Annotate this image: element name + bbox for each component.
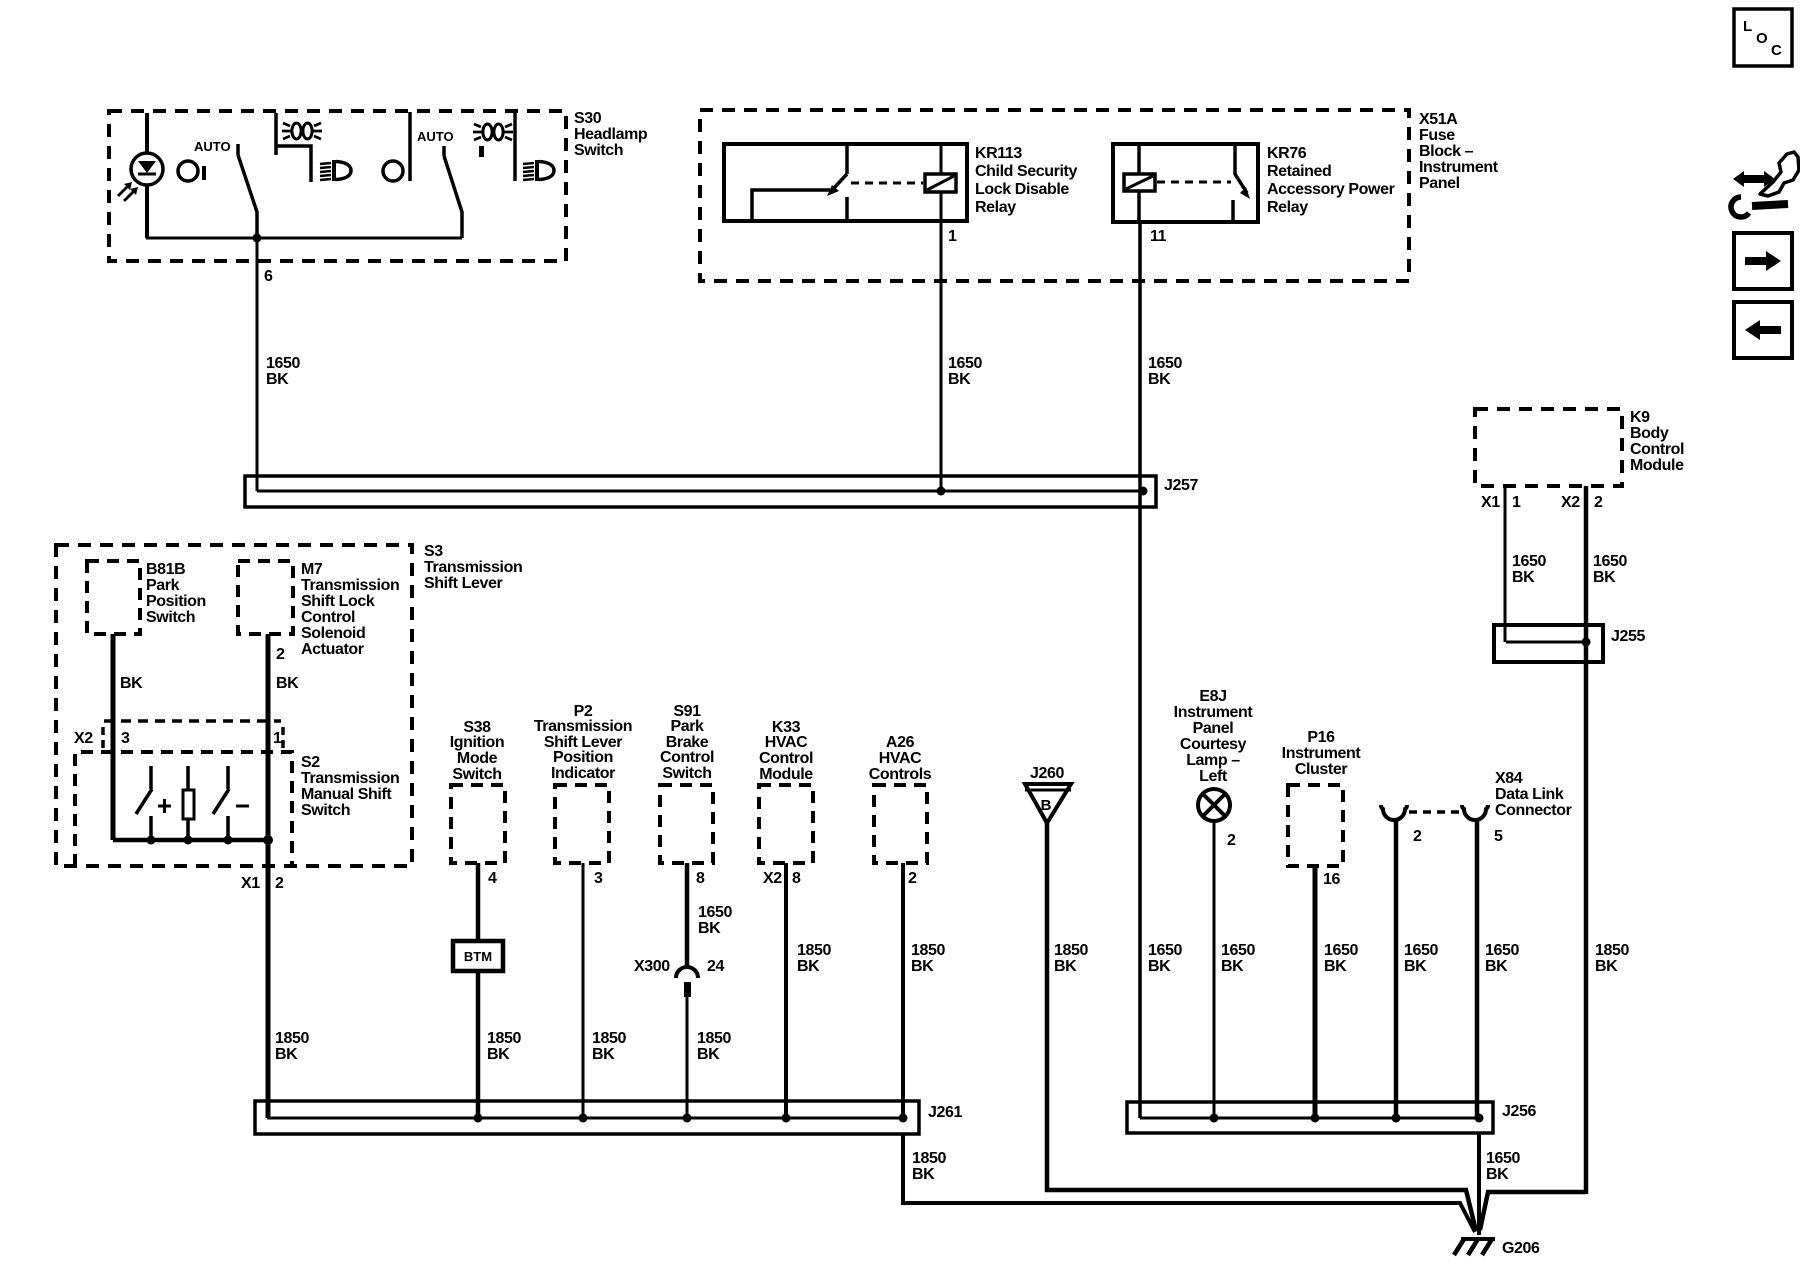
svg-text:Connector: Connector xyxy=(1495,802,1572,819)
svg-text:1850: 1850 xyxy=(911,942,945,959)
svg-text:Instrument: Instrument xyxy=(1174,704,1254,721)
contact bar 2 xyxy=(408,112,412,181)
svg-text:Position: Position xyxy=(553,749,613,766)
svg-text:BK: BK xyxy=(266,371,289,388)
P16 dashed box xyxy=(1288,785,1343,866)
S2 resistor xyxy=(183,766,194,840)
svg-text:BK: BK xyxy=(120,675,143,692)
svg-text:2: 2 xyxy=(908,870,917,887)
svg-text:HVAC: HVAC xyxy=(879,750,922,767)
svg-text:1650: 1650 xyxy=(698,904,732,921)
wire label 1850 BK xyxy=(592,1030,626,1063)
P2 pin 3 label xyxy=(594,870,603,887)
splice pack J261 xyxy=(255,1101,919,1134)
svg-text:B81B: B81B xyxy=(146,561,185,578)
svg-text:AUTO: AUTO xyxy=(417,129,454,144)
svg-text:Transmission: Transmission xyxy=(534,718,632,735)
ground G206 xyxy=(1454,1239,1495,1255)
KR113 coil-switch dashed link xyxy=(851,182,923,185)
S2 plus switch xyxy=(136,766,171,840)
svg-text:Instrument: Instrument xyxy=(1419,159,1499,176)
K9 label xyxy=(1630,409,1684,474)
svg-text:BK: BK xyxy=(1595,958,1618,975)
wire label 1650 BK xyxy=(1148,355,1182,388)
wire label 1650 BK xyxy=(698,904,732,937)
KR76 coil wires xyxy=(1137,146,1141,222)
pin 1 label xyxy=(948,228,957,245)
svg-text:J261: J261 xyxy=(928,1104,962,1121)
svg-text:Ignition: Ignition xyxy=(450,734,505,751)
M7 label xyxy=(301,561,399,658)
svg-text:BTM: BTM xyxy=(464,949,492,964)
wire labels 1650 BK xyxy=(1512,553,1546,586)
pin 6 label xyxy=(264,268,273,285)
wire P16 to J256 xyxy=(1313,866,1318,1118)
inline connector X300 xyxy=(634,958,724,997)
svg-text:J260: J260 xyxy=(1030,765,1064,782)
contact bar 3 xyxy=(513,112,517,181)
J255 label xyxy=(1611,628,1645,645)
svg-text:S2: S2 xyxy=(301,754,320,771)
svg-text:BK: BK xyxy=(592,1046,615,1063)
svg-text:2: 2 xyxy=(1413,828,1422,845)
svg-text:J256: J256 xyxy=(1502,1103,1536,1120)
svg-text:BK: BK xyxy=(1148,958,1171,975)
wire label 1650 BK xyxy=(1486,1150,1520,1183)
previous page arrow box xyxy=(1734,302,1792,358)
wire label 1850 BK xyxy=(911,942,945,975)
svg-text:1850: 1850 xyxy=(1595,942,1629,959)
X84 terminal ear pin 5 xyxy=(1462,805,1488,820)
wire label 1850 BK xyxy=(797,942,831,975)
svg-text:BK: BK xyxy=(911,958,934,975)
svg-text:BK: BK xyxy=(1593,569,1616,586)
svg-text:K9: K9 xyxy=(1630,409,1650,426)
svg-text:BK: BK xyxy=(1148,371,1171,388)
wire X84-2 to J256 xyxy=(1394,820,1399,1118)
S30 internal bus wire xyxy=(146,237,462,240)
A26 pin 2 label xyxy=(908,870,917,887)
X1 pin labels xyxy=(241,875,284,892)
svg-text:Panel: Panel xyxy=(1419,175,1460,192)
svg-text:16: 16 xyxy=(1323,871,1340,888)
data link connector X84 label xyxy=(1495,770,1572,819)
next page arrow box xyxy=(1734,233,1792,289)
wire labels 1650 BK xyxy=(1404,942,1438,975)
park brake control switch S91 label xyxy=(660,703,714,782)
svg-text:X51A: X51A xyxy=(1419,111,1458,128)
svg-text:Transmission: Transmission xyxy=(301,577,399,594)
X84 pin labels xyxy=(1413,828,1503,845)
S91 pin 8 label xyxy=(696,870,705,887)
svg-text:HVAC: HVAC xyxy=(765,734,808,751)
BK label right xyxy=(276,675,299,692)
svg-text:Actuator: Actuator xyxy=(301,641,364,658)
svg-text:S30: S30 xyxy=(574,110,602,127)
wire label 1850 BK xyxy=(275,1030,309,1063)
svg-text:Manual Shift: Manual Shift xyxy=(301,786,392,803)
wire M7 through S2 to J261 xyxy=(266,634,271,1118)
svg-text:Data Link: Data Link xyxy=(1495,786,1564,803)
splice pack J256 xyxy=(1127,1102,1493,1133)
X2 pin labels xyxy=(74,730,282,747)
wire K33 to J261 xyxy=(784,863,788,1118)
wire label 1650 BK xyxy=(1221,942,1255,975)
svg-text:1650: 1650 xyxy=(1148,942,1182,959)
svg-text:1650: 1650 xyxy=(1486,1150,1520,1167)
HVAC controls A26 label xyxy=(869,734,932,783)
P16 pin 16 label xyxy=(1323,871,1340,888)
svg-text:1850: 1850 xyxy=(797,942,831,959)
svg-text:11: 11 xyxy=(1150,228,1167,245)
svg-text:Relay: Relay xyxy=(975,199,1016,216)
wire label 1850 BK (J255 wire) xyxy=(1595,942,1629,975)
shift lever position indicator P2 label xyxy=(534,703,632,782)
svg-text:X1: X1 xyxy=(241,875,260,892)
instrument cluster P16 label xyxy=(1282,729,1362,778)
wire label 1650 BK xyxy=(266,355,300,388)
svg-text:Control: Control xyxy=(301,609,355,626)
svg-text:BK: BK xyxy=(276,675,299,692)
K9 pin labels xyxy=(1481,494,1603,511)
S2 minus switch xyxy=(213,766,249,840)
svg-text:1650: 1650 xyxy=(1221,942,1255,959)
wire J261 to ground xyxy=(903,1134,1475,1232)
S2 label xyxy=(301,754,399,819)
svg-text:Position: Position xyxy=(146,593,206,610)
svg-text:1: 1 xyxy=(273,730,282,747)
S38 dashed box xyxy=(451,785,505,863)
A26 dashed box xyxy=(874,785,927,863)
svg-text:KR76: KR76 xyxy=(1267,145,1307,162)
svg-text:1650: 1650 xyxy=(948,355,982,372)
fuse block X51A dashed box xyxy=(700,110,1409,281)
svg-text:5: 5 xyxy=(1494,828,1503,845)
svg-text:Controls: Controls xyxy=(869,766,932,783)
svg-text:Shift Lock: Shift Lock xyxy=(301,593,375,610)
ground distribution triangle J260 xyxy=(1025,784,1071,823)
K33 dashed box xyxy=(759,785,813,863)
svg-text:Control: Control xyxy=(759,750,813,767)
wire K9 X1-1 to J255 xyxy=(1504,486,1507,642)
ignition mode switch S38 label xyxy=(450,719,505,783)
svg-text:Control: Control xyxy=(1630,441,1684,458)
svg-text:Body: Body xyxy=(1630,425,1669,442)
svg-text:M7: M7 xyxy=(301,561,323,578)
svg-text:X300: X300 xyxy=(634,958,670,975)
svg-text:24: 24 xyxy=(707,958,724,975)
KR113 label xyxy=(975,145,1077,216)
switch position circle 1 xyxy=(178,161,206,181)
svg-text:1650: 1650 xyxy=(1485,942,1519,959)
AUTO label 1 xyxy=(194,139,231,154)
svg-text:B: B xyxy=(1041,797,1052,814)
svg-text:1850: 1850 xyxy=(1054,942,1088,959)
S91 dashed box xyxy=(660,785,713,863)
svg-text:AUTO: AUTO xyxy=(194,139,231,154)
photocell (ambient light sensor) xyxy=(118,113,163,238)
svg-text:KR113: KR113 xyxy=(975,145,1022,162)
HVAC control module K33 label xyxy=(759,719,813,783)
G206 label xyxy=(1502,1240,1540,1257)
svg-text:O: O xyxy=(1756,30,1768,47)
KR76 dashed link xyxy=(1157,181,1231,184)
svg-text:Child Security: Child Security xyxy=(975,163,1077,180)
wire KR113 pin1 to J257 xyxy=(940,221,943,491)
svg-text:2: 2 xyxy=(1594,494,1603,511)
wire J255 to ground xyxy=(1480,1192,1586,1230)
wire S30 pin6 to J257 xyxy=(256,238,259,491)
KR76 switch xyxy=(1233,146,1250,220)
S2 bus wire xyxy=(113,835,273,845)
splice pack J255 xyxy=(1494,625,1603,662)
M7 pin 2 label xyxy=(276,646,285,663)
X84 dashed link xyxy=(1409,810,1464,814)
svg-text:Indicator: Indicator xyxy=(551,765,615,782)
parking lamp icon 2 xyxy=(473,124,513,157)
wire X84-5 to J256 xyxy=(1475,820,1480,1118)
svg-text:BK: BK xyxy=(1485,958,1508,975)
svg-text:Relay: Relay xyxy=(1267,199,1308,216)
splice pack J257 xyxy=(245,476,1156,507)
wire J260 to ground xyxy=(1047,823,1476,1231)
transmission shift lever S3 dashed box xyxy=(56,545,412,866)
svg-text:BK: BK xyxy=(1404,958,1427,975)
switch blade 2 xyxy=(444,146,462,238)
wire label 1850 BK xyxy=(912,1150,946,1183)
svg-text:Module: Module xyxy=(1630,457,1684,474)
wire KR76 pin11 through J257 to J256 xyxy=(1138,222,1142,1118)
S38 pin 4 label xyxy=(488,870,497,887)
svg-text:Park: Park xyxy=(670,718,704,735)
svg-text:BK: BK xyxy=(797,958,820,975)
svg-text:S3: S3 xyxy=(424,543,443,560)
wire E8J to J256 xyxy=(1213,821,1216,1118)
svg-text:BK: BK xyxy=(912,1166,935,1183)
svg-text:G206: G206 xyxy=(1502,1240,1540,1257)
svg-text:Retained: Retained xyxy=(1267,163,1331,180)
svg-text:Block –: Block – xyxy=(1419,143,1474,160)
wire label 1850 BK xyxy=(1054,942,1088,975)
X2 inline connector crossing xyxy=(103,721,283,748)
switch blade 1 xyxy=(238,144,257,238)
svg-text:1650: 1650 xyxy=(1324,942,1358,959)
svg-text:BK: BK xyxy=(275,1046,298,1063)
svg-text:Fuse: Fuse xyxy=(1419,127,1455,144)
svg-text:1850: 1850 xyxy=(592,1030,626,1047)
svg-text:1: 1 xyxy=(1512,494,1521,511)
svg-text:3: 3 xyxy=(121,730,130,747)
wire label 1650 BK xyxy=(948,355,982,388)
KR76 coil xyxy=(1124,174,1155,191)
svg-text:1850: 1850 xyxy=(275,1030,309,1047)
svg-text:2: 2 xyxy=(276,646,285,663)
svg-text:BK: BK xyxy=(1324,958,1347,975)
svg-text:Courtesy: Courtesy xyxy=(1180,736,1247,753)
wire label 1650 BK xyxy=(1324,942,1358,975)
wire B81B to S2 bus xyxy=(111,634,116,840)
svg-text:1650: 1650 xyxy=(1593,553,1627,570)
BK label left xyxy=(120,675,143,692)
wire BTM to J261 xyxy=(476,971,481,1118)
P2 dashed box xyxy=(555,785,609,863)
headlamp icon 2 xyxy=(523,160,554,181)
svg-text:A26: A26 xyxy=(886,734,915,751)
svg-text:1650: 1650 xyxy=(1512,553,1546,570)
X84 terminal ear pin 2 xyxy=(1381,805,1407,820)
body control module K9 dashed box xyxy=(1475,409,1622,486)
svg-text:8: 8 xyxy=(792,870,801,887)
svg-text:Mode: Mode xyxy=(457,750,498,767)
K33 pin labels X2 8 xyxy=(763,870,801,887)
E8J pin 2 label xyxy=(1227,832,1236,849)
svg-text:L: L xyxy=(1743,18,1752,35)
parking lamp wire L 1 xyxy=(276,113,311,182)
svg-text:1850: 1850 xyxy=(697,1030,731,1047)
svg-text:Transmission: Transmission xyxy=(301,770,399,787)
J261 label xyxy=(928,1104,962,1121)
svg-text:Instrument: Instrument xyxy=(1282,745,1362,762)
svg-text:Lamp –: Lamp – xyxy=(1186,752,1240,769)
svg-text:Control: Control xyxy=(660,749,714,766)
headlamp icon 1 xyxy=(320,160,351,181)
svg-text:Switch: Switch xyxy=(662,765,711,782)
shift lock solenoid M7 dashed box xyxy=(238,561,293,634)
svg-text:X1: X1 xyxy=(1481,494,1500,511)
svg-text:2: 2 xyxy=(1227,832,1236,849)
svg-text:J255: J255 xyxy=(1611,628,1645,645)
junction dot S30 xyxy=(253,234,262,243)
svg-text:8: 8 xyxy=(696,870,705,887)
svg-text:E8J: E8J xyxy=(1199,688,1226,705)
svg-text:BK: BK xyxy=(698,920,721,937)
LOC icon box xyxy=(1734,9,1792,66)
svg-text:Switch: Switch xyxy=(452,766,501,783)
wire A26 to J261 xyxy=(901,863,905,1118)
svg-text:C: C xyxy=(1771,42,1782,59)
KR113 switch xyxy=(752,174,847,219)
svg-text:Accessory Power: Accessory Power xyxy=(1267,181,1395,198)
transmission manual shift switch S2 dashed box xyxy=(75,752,292,866)
wire label 1650 BK (KR76 wire) xyxy=(1148,942,1182,975)
X51A label xyxy=(1419,111,1499,192)
BTM box xyxy=(453,941,503,971)
svg-text:Transmission: Transmission xyxy=(424,559,522,576)
svg-text:Cluster: Cluster xyxy=(1295,761,1347,778)
KR76 label xyxy=(1267,145,1395,216)
svg-text:3: 3 xyxy=(594,870,603,887)
svg-text:Left: Left xyxy=(1199,768,1228,785)
S30 label xyxy=(574,110,648,159)
svg-text:J257: J257 xyxy=(1164,477,1198,494)
headlamp switch S30 dashed box xyxy=(109,111,566,261)
svg-text:P16: P16 xyxy=(1307,729,1335,746)
svg-text:Switch: Switch xyxy=(574,142,623,159)
svg-text:1: 1 xyxy=(948,228,957,245)
wire S38 to BTM xyxy=(476,863,481,941)
wire label 1850 BK xyxy=(487,1030,521,1063)
pin 11 label xyxy=(1150,228,1167,245)
AUTO label 2 xyxy=(417,129,454,144)
svg-text:BK: BK xyxy=(948,371,971,388)
svg-text:1650: 1650 xyxy=(1148,355,1182,372)
svg-text:X2: X2 xyxy=(74,730,93,747)
instrument panel courtesy lamp E8J label xyxy=(1174,688,1254,785)
svg-text:Solenoid: Solenoid xyxy=(301,625,365,642)
service/diagnostic icon xyxy=(1731,152,1799,217)
svg-text:1850: 1850 xyxy=(912,1150,946,1167)
park position switch B81B dashed box xyxy=(87,561,140,634)
svg-text:BK: BK xyxy=(1486,1166,1509,1183)
svg-text:X2: X2 xyxy=(1561,494,1580,511)
svg-text:Panel: Panel xyxy=(1193,720,1234,737)
svg-text:Switch: Switch xyxy=(146,609,195,626)
wire P2 to J261 xyxy=(582,863,585,1118)
svg-text:1850: 1850 xyxy=(487,1030,521,1047)
wire J256 to ground xyxy=(1477,1133,1481,1235)
relay KR113 box xyxy=(724,144,967,221)
svg-text:BK: BK xyxy=(487,1046,510,1063)
KR113 contact common xyxy=(845,146,849,219)
svg-text:Module: Module xyxy=(759,766,813,783)
svg-text:BK: BK xyxy=(697,1046,720,1063)
KR113 coil xyxy=(925,174,956,192)
switch position circle 2 xyxy=(383,161,403,181)
S3 label xyxy=(424,543,522,592)
svg-text:BK: BK xyxy=(1221,958,1244,975)
svg-text:Shift Lever: Shift Lever xyxy=(424,575,502,592)
J260 label xyxy=(1030,765,1064,782)
svg-text:Headlamp: Headlamp xyxy=(574,126,648,143)
svg-text:6: 6 xyxy=(264,268,273,285)
relay KR76 box xyxy=(1113,144,1258,222)
svg-text:X2: X2 xyxy=(763,870,782,887)
wire K9 X2-2 through J255 down xyxy=(1584,486,1589,1194)
J257 label xyxy=(1164,477,1198,494)
lamp E8J symbol xyxy=(1198,789,1230,821)
KR113 coil wires xyxy=(940,146,943,221)
svg-text:X84: X84 xyxy=(1495,770,1523,787)
B81B label xyxy=(146,561,206,626)
svg-text:BK: BK xyxy=(1054,958,1077,975)
svg-text:2: 2 xyxy=(275,875,284,892)
svg-text:1650: 1650 xyxy=(266,355,300,372)
svg-text:BK: BK xyxy=(1512,569,1535,586)
svg-text:4: 4 xyxy=(488,870,497,887)
wire label 1850 BK xyxy=(697,1030,731,1063)
wire S91 to X300 xyxy=(685,863,690,969)
svg-text:Park: Park xyxy=(146,577,180,594)
J256 label xyxy=(1502,1103,1536,1120)
svg-text:Switch: Switch xyxy=(301,802,350,819)
svg-text:Lock Disable: Lock Disable xyxy=(975,181,1069,198)
svg-text:1650: 1650 xyxy=(1404,942,1438,959)
parking lamp icon 1 xyxy=(282,123,322,139)
wire X300 to J261 xyxy=(686,997,689,1118)
